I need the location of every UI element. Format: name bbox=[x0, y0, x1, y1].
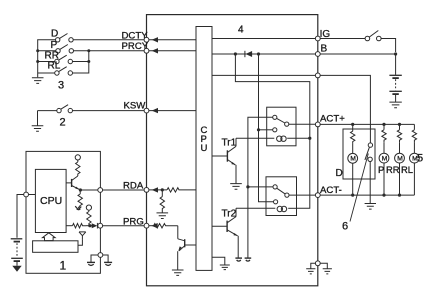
wire switch to ground bbox=[369, 162, 371, 204]
resistor (motor D) bbox=[351, 124, 355, 143]
label 2 bbox=[60, 116, 66, 128]
transistor Q2 (PRG input, mirrored) bbox=[178, 226, 196, 270]
node ACT- D branch bbox=[351, 194, 354, 197]
switch IG (ignition) bbox=[365, 31, 381, 41]
label Tr1 bbox=[222, 138, 237, 149]
svg-text:ACT-: ACT- bbox=[320, 185, 342, 196]
label D (motor) bbox=[336, 168, 343, 179]
transistor Q1 bbox=[66, 176, 80, 190]
relay RY1 contacts bbox=[273, 115, 289, 132]
svg-text:RR: RR bbox=[386, 164, 400, 175]
chassis ground left (unit1) bbox=[87, 255, 98, 265]
resistor R1 (pull-up) bbox=[76, 160, 80, 176]
supply terminal circle V1 bbox=[75, 155, 80, 160]
actuator box (motor D assembly) bbox=[343, 129, 375, 179]
svg-text:D: D bbox=[336, 168, 343, 179]
resistor R7 (PRG series) bbox=[154, 224, 178, 228]
ground (switch bank) bbox=[32, 78, 44, 84]
label PRCY bbox=[122, 41, 149, 52]
terminal circle (unit1 left edge) bbox=[24, 192, 29, 197]
wire PRG from CPU bbox=[66, 225, 72, 227]
node RDA divider bbox=[161, 188, 164, 191]
wire IG terminal to switch bbox=[320, 38, 365, 40]
label RR bbox=[45, 51, 59, 62]
switch (item 6, door key) bbox=[365, 143, 373, 162]
label Tr2 bbox=[222, 208, 237, 219]
label KSW bbox=[124, 101, 147, 112]
relay RY2 coil bbox=[236, 206, 297, 211]
node ACT+ RR branch bbox=[398, 123, 401, 126]
node ACT+ P branch bbox=[382, 123, 385, 126]
terminal PRG + input arrow bbox=[144, 223, 158, 228]
svg-text:PRG: PRG bbox=[123, 216, 144, 227]
ground (R6) bbox=[157, 213, 169, 219]
node ACT+ D branch bbox=[351, 123, 354, 126]
svg-text:M: M bbox=[397, 155, 403, 162]
leader line for label 6 bbox=[350, 154, 368, 222]
label CPU (unit1) bbox=[40, 195, 62, 207]
node PRG junction bbox=[86, 224, 92, 227]
ground left (block bottom) bbox=[306, 263, 315, 274]
resistor R4 (PRG series) bbox=[73, 224, 87, 228]
chassis ground (relay NC net) bbox=[245, 258, 252, 261]
svg-text:KSW: KSW bbox=[124, 101, 147, 112]
terminal ACTU bbox=[315, 73, 320, 78]
wire P switch to PRCY bbox=[74, 49, 145, 52]
label 1 bbox=[60, 259, 67, 273]
wire B terminal to battery bbox=[320, 52, 397, 74]
resistor R6 (RDA to ground) bbox=[160, 190, 164, 213]
relay RY1 coil bbox=[236, 136, 310, 141]
ground bus for switches D,P,RR,RL bbox=[36, 40, 56, 78]
wire RDA unit1 to block bbox=[103, 189, 145, 191]
wire ACTU terminal to door-lock switch bbox=[320, 75, 370, 142]
resistor R5 (RDA series) bbox=[167, 188, 196, 192]
wire B from CPU to terminal bbox=[212, 53, 315, 55]
label IG bbox=[320, 29, 331, 40]
wire ground to KSW switch bbox=[38, 110, 57, 112]
motor RR bbox=[395, 142, 405, 195]
terminal PRCY + input arrow bbox=[144, 48, 196, 53]
diode D2 (relay supply) bbox=[245, 51, 252, 57]
ground (Q2 emitter) bbox=[172, 270, 184, 275]
transistor Tr2 bbox=[212, 208, 238, 257]
wire CPU ground stub bbox=[212, 257, 225, 265]
wire ACTU output (terminal y75.4) bbox=[212, 74, 315, 76]
chassis ground (Tr2 emitter) bbox=[235, 258, 242, 261]
node ACT- P branch bbox=[382, 194, 385, 197]
label CPU (vertical) bbox=[201, 125, 208, 154]
label 6 bbox=[342, 221, 348, 233]
terminal circle PRG (unit1) bbox=[98, 223, 103, 228]
wire relay supply net (from diode to coils) bbox=[235, 54, 311, 208]
transistor Tr1 bbox=[212, 138, 236, 183]
relay RY2 contacts bbox=[273, 185, 289, 204]
wire ACT+ rail bbox=[320, 123, 414, 125]
wire relay NC contacts to ground net bbox=[246, 117, 273, 257]
sub-module box (unit1) bbox=[33, 241, 78, 253]
motor D bbox=[348, 144, 358, 196]
terminal KSW + input arrow bbox=[144, 108, 196, 113]
resistor (motor RL) bbox=[412, 124, 416, 142]
ground (battery B2) bbox=[389, 102, 401, 108]
svg-text:U: U bbox=[201, 143, 208, 154]
svg-text:1: 1 bbox=[60, 259, 67, 273]
wire IG switch to battery node bbox=[381, 39, 396, 53]
wire RY2 common to ACT- bbox=[289, 194, 315, 196]
terminal circle RDA (unit1) bbox=[98, 188, 103, 193]
switch D bbox=[56, 34, 74, 43]
resistor R3 (PRG pull-up) bbox=[87, 210, 91, 226]
label DCTY bbox=[122, 30, 149, 41]
svg-text:D: D bbox=[51, 29, 58, 40]
switch RR bbox=[55, 55, 73, 64]
svg-text:Tr1: Tr1 bbox=[222, 138, 237, 149]
svg-text:P: P bbox=[378, 164, 384, 175]
svg-text:5: 5 bbox=[417, 153, 423, 165]
wire D switch to DCTY bbox=[73, 39, 144, 41]
ground (CPU stub) bbox=[220, 265, 230, 270]
terminal ACT+ bbox=[315, 122, 320, 127]
bus arrow CPU to sub-module bbox=[43, 233, 56, 241]
label RL bbox=[401, 164, 413, 175]
ground (Tr1 emitter) bbox=[230, 184, 242, 190]
svg-text:RDA: RDA bbox=[123, 180, 144, 191]
label P bbox=[378, 164, 384, 175]
CPU U2 box bbox=[35, 169, 66, 232]
unit 1 box bbox=[26, 151, 100, 273]
svg-text:M: M bbox=[350, 156, 356, 163]
wire CPU left to battery terminal bbox=[17, 195, 35, 238]
svg-text:3: 3 bbox=[58, 80, 64, 92]
CPU U3 box (vertical) bbox=[196, 27, 212, 271]
label P bbox=[51, 40, 58, 51]
svg-text:2: 2 bbox=[60, 116, 66, 128]
battery B2 (vehicle) bbox=[389, 75, 401, 102]
label ACT+ bbox=[320, 114, 345, 125]
ground (KSW) bbox=[32, 111, 44, 132]
wire ACT- rail bbox=[320, 194, 414, 196]
wire IG from CPU to terminal bbox=[212, 38, 315, 40]
svg-text:RL: RL bbox=[48, 61, 61, 72]
svg-text:ACT+: ACT+ bbox=[320, 114, 345, 125]
supply terminal circle V2 bbox=[86, 205, 91, 210]
motor P bbox=[379, 142, 389, 195]
node RDA out (unit1) bbox=[79, 188, 82, 191]
label RR bbox=[386, 164, 400, 175]
label ACT- bbox=[320, 185, 342, 196]
resistor R2 (emitter load) bbox=[78, 190, 82, 206]
switch P bbox=[56, 45, 74, 54]
switch RL bbox=[55, 67, 73, 76]
svg-text:4: 4 bbox=[238, 25, 244, 36]
svg-text:P: P bbox=[51, 40, 58, 51]
wire PRG unit1 to block bbox=[103, 225, 145, 227]
antenna (unit1) bbox=[78, 232, 86, 245]
terminal ACT- bbox=[315, 193, 320, 198]
terminal B bbox=[315, 52, 320, 57]
label 5 bbox=[417, 153, 423, 165]
ground right (block bottom) bbox=[320, 263, 332, 274]
label RDA bbox=[123, 180, 144, 191]
node B-diode left bbox=[234, 52, 237, 55]
ground (switch 6) bbox=[365, 204, 376, 210]
label D bbox=[51, 29, 58, 40]
label 3 bbox=[58, 80, 64, 92]
terminal RDA + input arrow bbox=[144, 187, 167, 192]
wire KSW switch to block bbox=[73, 110, 145, 112]
wire RL to bus and vertical bus to P line bbox=[73, 51, 89, 73]
chassis ground right (unit1) bbox=[103, 255, 112, 265]
wire B to relay NO contacts bbox=[257, 54, 274, 202]
svg-text:RL: RL bbox=[401, 164, 413, 175]
terminal IG bbox=[315, 36, 320, 41]
switch KSW (item 2) bbox=[57, 105, 73, 113]
relay RY1 box bbox=[267, 107, 296, 146]
svg-text:CPU: CPU bbox=[40, 195, 62, 207]
wire Q1 emitter to terminal bbox=[80, 189, 97, 191]
label PRG bbox=[123, 216, 144, 227]
svg-text:M: M bbox=[382, 155, 388, 162]
terminal block ground (right edge) bbox=[315, 261, 320, 266]
label RL bbox=[48, 61, 61, 72]
block 4 outline bbox=[147, 15, 318, 286]
svg-text:6: 6 bbox=[342, 221, 348, 233]
relay RY2 box bbox=[266, 177, 297, 216]
node B-diode right bbox=[257, 52, 260, 55]
motor RL bbox=[410, 142, 420, 195]
wire RY1 common to ACT+ bbox=[289, 123, 316, 125]
battery B1 (unit1) bbox=[11, 239, 23, 266]
svg-text:B: B bbox=[321, 44, 328, 55]
terminal DCTY + input arrow bbox=[144, 37, 196, 42]
wire RR to bus bbox=[73, 60, 91, 63]
resistor (motor P) bbox=[382, 124, 386, 142]
label 4 bbox=[238, 25, 244, 36]
label B bbox=[321, 44, 328, 55]
resistor (motor RR) bbox=[397, 124, 401, 142]
diode D1 (PRG) bbox=[92, 223, 98, 229]
terminal circle ground (unit1 right edge) bbox=[98, 253, 103, 258]
solid arrow ground (battery B1) bbox=[12, 266, 21, 272]
svg-text:Tr2: Tr2 bbox=[222, 208, 237, 219]
node ACT- RR branch bbox=[398, 194, 401, 197]
arrow ground (unit1 R2) bbox=[75, 206, 81, 210]
